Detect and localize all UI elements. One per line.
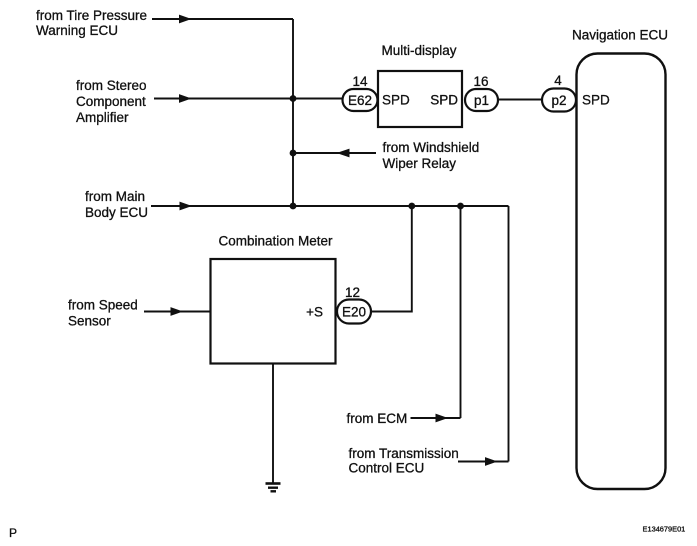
label: from Windshield Wiper Relay [383, 140, 480, 171]
node C: junction bus x=293 on main body wire [290, 203, 297, 210]
wire from node D down to connector E20 [371, 206, 412, 312]
svg-text:P: P [9, 526, 17, 540]
svg-text:Component: Component [76, 94, 146, 109]
svg-text:from Main: from Main [85, 189, 145, 204]
svg-text:16: 16 [473, 74, 488, 89]
node A: junction on bus at stereo wire [290, 95, 297, 102]
label: from Speed Sensor [68, 298, 138, 329]
ground [266, 484, 281, 492]
svg-text:4: 4 [554, 73, 562, 88]
wire from ECM to node E branch (with arrow) [411, 414, 461, 423]
block U3 Combination Meter [211, 259, 336, 364]
wire from Tire Pressure Warning ECU to node A (with arrow) [152, 15, 293, 24]
node E: junction at x=460.5 on main body wire [457, 203, 464, 210]
connector p1 [465, 89, 498, 111]
svg-text:from ECM: from ECM [347, 411, 408, 426]
wire vertical bus x=293 [292, 19, 294, 206]
svg-text:from Speed: from Speed [68, 298, 138, 313]
wire from Stereo Component Amplifier to connector E62 (with arrow) [154, 94, 343, 103]
svg-text:SPD: SPD [430, 93, 458, 108]
node D: junction at x=412 on main body wire [408, 203, 415, 210]
svg-text:E134679E01: E134679E01 [643, 525, 686, 534]
svg-text:from Tire Pressure: from Tire Pressure [36, 8, 147, 23]
svg-text:SPD: SPD [582, 93, 610, 108]
wire from node E down to ECM branch [460, 206, 462, 418]
svg-text:12: 12 [345, 285, 360, 300]
svg-text:Body ECU: Body ECU [85, 205, 148, 220]
label: from Main Body ECU [85, 189, 148, 220]
svg-text:+S: +S [306, 305, 323, 320]
svg-text:Navigation ECU: Navigation ECU [572, 28, 668, 43]
label: from Transmission Control ECU [349, 446, 459, 476]
svg-text:p1: p1 [474, 93, 489, 108]
node B: junction on bus at wiper wire [290, 150, 297, 157]
svg-text:Sensor: Sensor [68, 314, 111, 329]
svg-text:Amplifier: Amplifier [76, 110, 129, 125]
wire from Transmission Control ECU to corner branch (with arrow) [458, 457, 509, 466]
connector p2 [542, 89, 576, 112]
svg-text:Control ECU: Control ECU [349, 461, 425, 476]
label: from Stereo Component Amplifier [76, 78, 147, 125]
svg-text:p2: p2 [551, 93, 566, 108]
wire from Speed Sensor to Combination Meter (with arrow) [144, 307, 211, 316]
label: from Tire Pressure Warning ECU [36, 8, 147, 38]
svg-text:Combination Meter: Combination Meter [219, 234, 334, 249]
svg-text:14: 14 [352, 74, 368, 89]
svg-text:E62: E62 [348, 93, 372, 108]
wire from Windshield Wiper Relay to bus (arrow pointing left) [293, 149, 376, 158]
svg-text:Multi-display: Multi-display [381, 43, 456, 58]
block U1 Multi-display [378, 71, 462, 127]
wire from Main Body ECU horizontal y=206 (with arrow) [151, 202, 509, 211]
wire corner from main body wire down to transmission branch [508, 206, 510, 462]
connector E62 [343, 89, 378, 111]
svg-text:from Windshield: from Windshield [383, 140, 480, 155]
svg-text:SPD: SPD [382, 93, 410, 108]
svg-text:Wiper Relay: Wiper Relay [383, 156, 457, 171]
connector E20 [337, 300, 371, 324]
wire from Combination Meter bottom to ground [272, 364, 274, 484]
svg-text:from Stereo: from Stereo [76, 78, 147, 93]
svg-text:Warning ECU: Warning ECU [36, 23, 118, 38]
svg-text:E20: E20 [342, 305, 366, 320]
wire connector p1 to connector p2 [498, 99, 542, 101]
block U2 Navigation ECU [577, 54, 666, 490]
svg-text:from Transmission: from Transmission [349, 446, 459, 461]
